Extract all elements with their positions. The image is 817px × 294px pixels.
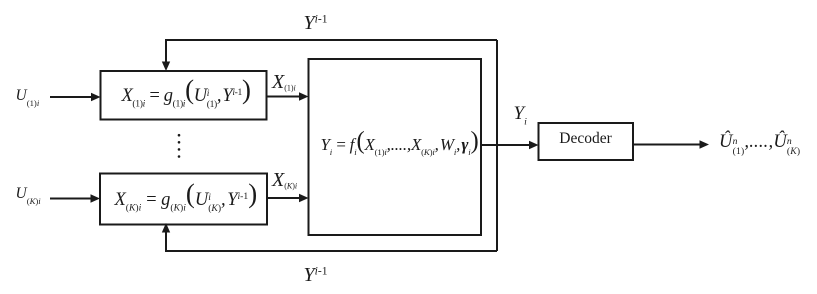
encoder 1 equation [100, 71, 267, 120]
arrowhead U(1)i [91, 93, 101, 101]
decoder label [538, 123, 633, 160]
arrowhead U(K)i [91, 194, 101, 202]
wire feedback top [166, 40, 497, 62]
node U(1)i label [16, 88, 40, 108]
node X(K)i label [272, 170, 297, 191]
arrowhead into encoder K bottom [162, 223, 170, 233]
encoder K box [100, 174, 267, 225]
node U(K)i label [16, 186, 41, 206]
wire X(1)i [267, 96, 301, 98]
decoder box [539, 123, 634, 160]
node output estimates label [719, 133, 800, 158]
wire decoder output [633, 144, 700, 146]
wire U(1)i input [50, 96, 92, 98]
node Y^{i-1} bottom label [304, 265, 328, 285]
channel box [309, 59, 482, 235]
arrowhead output [700, 140, 710, 148]
encoder K equation [100, 174, 267, 225]
encoder 1 box [101, 71, 267, 120]
node Y^{i-1} top label [304, 13, 328, 33]
arrowhead X(1)i [299, 92, 309, 100]
arrowhead X(K)i [299, 194, 309, 202]
wire U(K)i input [50, 198, 92, 200]
node X(1)i label [272, 72, 296, 93]
arrowhead into encoder 1 top [162, 62, 170, 72]
wire X(K)i [267, 197, 300, 199]
vertical ellipsis dots [178, 134, 181, 137]
wire Y_i [481, 144, 530, 146]
arrowhead Y_i into decoder [529, 141, 539, 149]
node Y_i label [514, 104, 527, 127]
wire feedback right [496, 40, 498, 251]
wire feedback bottom [166, 232, 497, 251]
channel equation [308, 59, 481, 235]
